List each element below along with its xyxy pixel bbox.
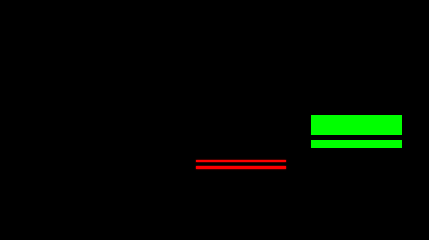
capacitor C1 plate (lower, red)	[196, 166, 286, 169]
capacitor C1 plate (upper, red)	[196, 160, 286, 162]
capacitor C2 plate (thick, green)	[311, 115, 402, 135]
capacitor C2 plate (thin, green)	[311, 140, 402, 148]
